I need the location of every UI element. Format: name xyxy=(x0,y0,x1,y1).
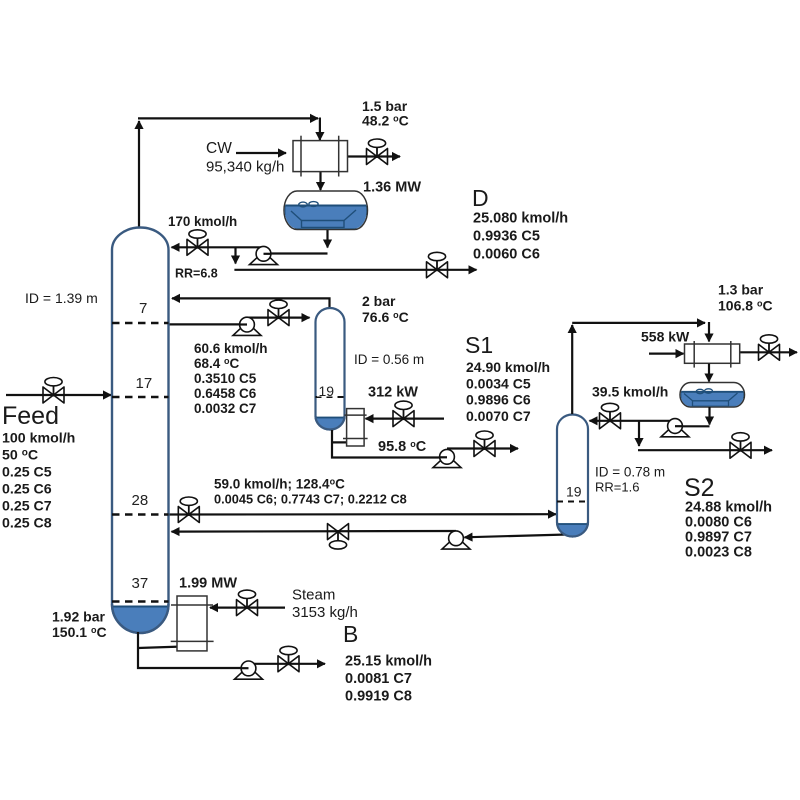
svg-text:0.0070 C7: 0.0070 C7 xyxy=(466,408,531,424)
svg-text:B: B xyxy=(343,621,358,647)
reflux drum liquid xyxy=(285,206,368,230)
svg-text:150.1 oC: 150.1 oC xyxy=(52,624,107,640)
wire: bottoms product B line xyxy=(249,663,326,665)
svg-text:0.3510 C5: 0.3510 C5 xyxy=(194,371,257,386)
wire: S2 reflux line xyxy=(590,420,676,422)
svg-text:25.15 kmol/h: 25.15 kmol/h xyxy=(345,654,432,670)
S1 bottoms liquid xyxy=(313,418,347,432)
condenser HX1 left tube sheet xyxy=(300,136,302,177)
svg-text:0.0034 C5: 0.0034 C5 xyxy=(466,376,531,392)
valve V5 tray28 draw xyxy=(178,497,199,523)
svg-text:0.0045 C6; 0.7743 C7; 0.2212 C: 0.0045 C6; 0.7743 C7; 0.2212 C8 xyxy=(214,492,407,507)
wire: condenser to reflux drum xyxy=(319,172,321,190)
pump P6 S2 reflux pump xyxy=(661,419,689,437)
svg-text:0.0080 C6: 0.0080 C6 xyxy=(685,515,752,531)
svg-text:48.2 oC: 48.2 oC xyxy=(362,113,409,129)
wire: S2 bottoms to pump (diagonal) xyxy=(465,535,568,538)
svg-text:0.9919 C8: 0.9919 C8 xyxy=(345,689,412,705)
wire: S1 overhead vapor return xyxy=(172,298,330,308)
svg-text:S1: S1 xyxy=(465,332,493,358)
main column bottoms liquid xyxy=(108,607,174,637)
wire: overhead horizontal run to condenser xyxy=(138,117,318,119)
svg-text:S2: S2 xyxy=(684,474,715,502)
pump P5 bottoms pump xyxy=(235,661,263,679)
valve V3 distillate D xyxy=(427,252,448,278)
wire: S2 product branch down xyxy=(638,421,640,446)
svg-text:ID = 0.56 m: ID = 0.56 m xyxy=(354,352,424,367)
svg-text:24.90 kmol/h: 24.90 kmol/h xyxy=(466,359,550,375)
wire: bottoms to reboiler connector xyxy=(138,647,183,649)
wire: tray28 draw to S2 xyxy=(169,513,557,515)
valve V4 S1 feed xyxy=(268,300,289,326)
svg-text:0.0060 C6: 0.0060 C6 xyxy=(473,247,540,263)
condenser HX2 left tube sheet xyxy=(693,341,695,368)
svg-text:19: 19 xyxy=(566,484,582,500)
wire: condenser outlet to valve xyxy=(348,155,401,157)
svg-text:RR=6.8: RR=6.8 xyxy=(175,267,218,281)
wire: steam line xyxy=(210,606,285,608)
valve V9 feed xyxy=(43,378,64,404)
pump P4 S2 bottoms pump xyxy=(442,531,470,549)
S1 tray 19 dashed line xyxy=(316,396,345,398)
wire: S1 feed line xyxy=(247,317,310,319)
svg-text:0.0032 C7: 0.0032 C7 xyxy=(194,401,256,416)
condenser HX2 shell xyxy=(685,344,740,363)
reflux drum shell xyxy=(284,191,368,230)
valve V8 bottoms product xyxy=(278,646,299,672)
wire: S2 drum outlet to reflux pump xyxy=(676,425,710,427)
wire: S1 reboiler heat inlet xyxy=(366,418,445,420)
valve V2 reflux xyxy=(187,230,208,256)
S2 bottoms liquid xyxy=(555,524,591,538)
svg-text:39.5 kmol/h: 39.5 kmol/h xyxy=(592,384,668,400)
reboiler RB2 tube sheet xyxy=(343,438,368,440)
svg-text:59.0 kmol/h; 128.4oC: 59.0 kmol/h; 128.4oC xyxy=(214,477,345,492)
main column shell xyxy=(112,228,169,633)
tray 28 dashed line xyxy=(112,513,169,515)
svg-text:60.6 kmol/h: 60.6 kmol/h xyxy=(194,341,268,356)
wire: S2 condenser to drum xyxy=(708,364,710,382)
valve V1 condenser outlet xyxy=(367,139,388,165)
svg-text:0.25 C5: 0.25 C5 xyxy=(2,465,52,481)
svg-text:28: 28 xyxy=(132,492,149,509)
wire: column overhead vapor riser xyxy=(138,121,140,228)
wire: drum outlet horizontal to reflux pump xyxy=(264,252,328,254)
wire: S2 condenser outlet xyxy=(740,351,797,353)
svg-text:1.3 bar: 1.3 bar xyxy=(718,282,764,298)
valve V6 S2 bottoms return (actuator below) xyxy=(328,524,349,550)
reboiler RB2 shell xyxy=(347,409,365,446)
svg-text:558 kW: 558 kW xyxy=(641,329,690,345)
svg-text:0.6458 C6: 0.6458 C6 xyxy=(194,386,257,401)
wire: tray7 liquid draw to pump xyxy=(169,323,248,325)
S2 reflux drum liquid xyxy=(681,392,745,407)
wire: reflux drum outlet down xyxy=(326,230,328,248)
condenser HX1 shell xyxy=(293,141,348,172)
svg-text:0.9936 C5: 0.9936 C5 xyxy=(473,229,540,245)
wire: feed line xyxy=(6,394,111,396)
svg-text:D: D xyxy=(472,185,489,211)
svg-text:100 kmol/h: 100 kmol/h xyxy=(2,431,75,447)
valve V11 S1 bottoms product xyxy=(474,431,495,457)
wire: distillate branch down xyxy=(234,247,236,263)
svg-text:CW: CW xyxy=(206,140,232,157)
wire: distillate D line xyxy=(234,269,476,271)
svg-text:0.9896 C6: 0.9896 C6 xyxy=(466,392,531,408)
svg-text:Feed: Feed xyxy=(2,402,59,430)
tray 17 dashed line xyxy=(112,396,169,398)
S1 stripper shell xyxy=(316,308,345,429)
svg-text:50 oC: 50 oC xyxy=(2,448,38,464)
wire: S1 bottoms product line xyxy=(447,447,518,449)
tray 7 dashed line xyxy=(112,322,169,324)
wire: S2 product line xyxy=(638,449,772,451)
pump P3 S1 bottoms pump xyxy=(433,449,461,467)
reflux drum inner detail xyxy=(291,202,356,228)
svg-text:ID = 1.39 m: ID = 1.39 m xyxy=(25,290,98,306)
svg-text:7: 7 xyxy=(139,300,147,317)
svg-text:0.9897 C7: 0.9897 C7 xyxy=(685,530,752,546)
wire: reflux line to column xyxy=(172,246,265,248)
svg-text:95.8 oC: 95.8 oC xyxy=(378,439,427,455)
S2 reflux drum shell xyxy=(680,383,745,408)
svg-text:0.25 C8: 0.25 C8 xyxy=(2,516,52,532)
wire: main bottoms outlet xyxy=(138,632,242,668)
pump P1 reflux pump xyxy=(250,246,278,264)
svg-text:95,340 kg/h: 95,340 kg/h xyxy=(206,159,284,176)
wire: S2 condenser inlet xyxy=(649,353,684,355)
svg-text:0.0081 C7: 0.0081 C7 xyxy=(345,671,412,687)
valve V13 S2 reflux xyxy=(600,403,621,429)
wire: CW inlet xyxy=(236,152,286,154)
valve V10 S1 heat xyxy=(393,401,414,427)
wire: S2 overhead riser xyxy=(571,325,573,414)
wire: S1 bottoms outlet xyxy=(332,430,441,458)
svg-text:0.25 C6: 0.25 C6 xyxy=(2,482,52,498)
svg-text:2 bar: 2 bar xyxy=(362,293,396,309)
wire: S2 overhead horizontal xyxy=(572,322,705,324)
svg-text:0.0023 C8: 0.0023 C8 xyxy=(685,545,752,561)
svg-text:106.8 oC: 106.8 oC xyxy=(718,298,773,314)
wire: drop into condenser xyxy=(319,118,321,141)
reboiler RB1 tube sheet xyxy=(171,640,214,642)
svg-text:25.080 kmol/h: 25.080 kmol/h xyxy=(473,211,568,227)
condenser HX2 right tube sheet xyxy=(730,341,732,368)
S2 tray 19 dashed line xyxy=(557,501,588,503)
svg-text:0.25 C7: 0.25 C7 xyxy=(2,499,52,515)
svg-text:ID = 0.78 m: ID = 0.78 m xyxy=(595,465,665,480)
valve V12 S2 condenser outlet xyxy=(759,335,780,361)
svg-text:19: 19 xyxy=(319,383,335,399)
svg-text:17: 17 xyxy=(136,375,153,392)
svg-text:312 kW: 312 kW xyxy=(368,385,418,401)
valve V7 steam xyxy=(237,590,258,616)
reboiler RB1 shell xyxy=(177,596,207,651)
wire: S2 bottoms return to column xyxy=(172,530,457,533)
condenser HX1 right tube sheet xyxy=(338,136,340,177)
svg-text:1.99 MW: 1.99 MW xyxy=(179,576,237,592)
S2 stripper shell xyxy=(557,415,588,537)
svg-text:1.92 bar: 1.92 bar xyxy=(52,609,105,625)
reboiler RB1 top tube sheet xyxy=(171,604,213,606)
svg-text:Steam: Steam xyxy=(292,587,335,604)
svg-text:24.88 kmol/h: 24.88 kmol/h xyxy=(685,500,772,516)
svg-text:37: 37 xyxy=(132,575,149,592)
svg-text:68.4 oC: 68.4 oC xyxy=(194,356,240,371)
wire: S2 drum outlet down xyxy=(708,407,710,425)
svg-text:1.36 MW: 1.36 MW xyxy=(363,180,421,196)
svg-text:3153 kg/h: 3153 kg/h xyxy=(292,604,358,621)
valve V14 S2 product xyxy=(730,433,751,459)
svg-text:RR=1.6: RR=1.6 xyxy=(595,480,639,495)
pump P2 S1 feed pump xyxy=(233,317,261,335)
svg-text:170 kmol/h: 170 kmol/h xyxy=(168,214,237,229)
wire: drop into S2 condenser xyxy=(708,322,710,342)
svg-text:76.6 oC: 76.6 oC xyxy=(362,309,409,325)
reboiler RB2 top tube sheet xyxy=(344,414,366,416)
tray 37 dashed line xyxy=(112,600,169,602)
wire: S1 reboiler connector xyxy=(332,441,355,443)
